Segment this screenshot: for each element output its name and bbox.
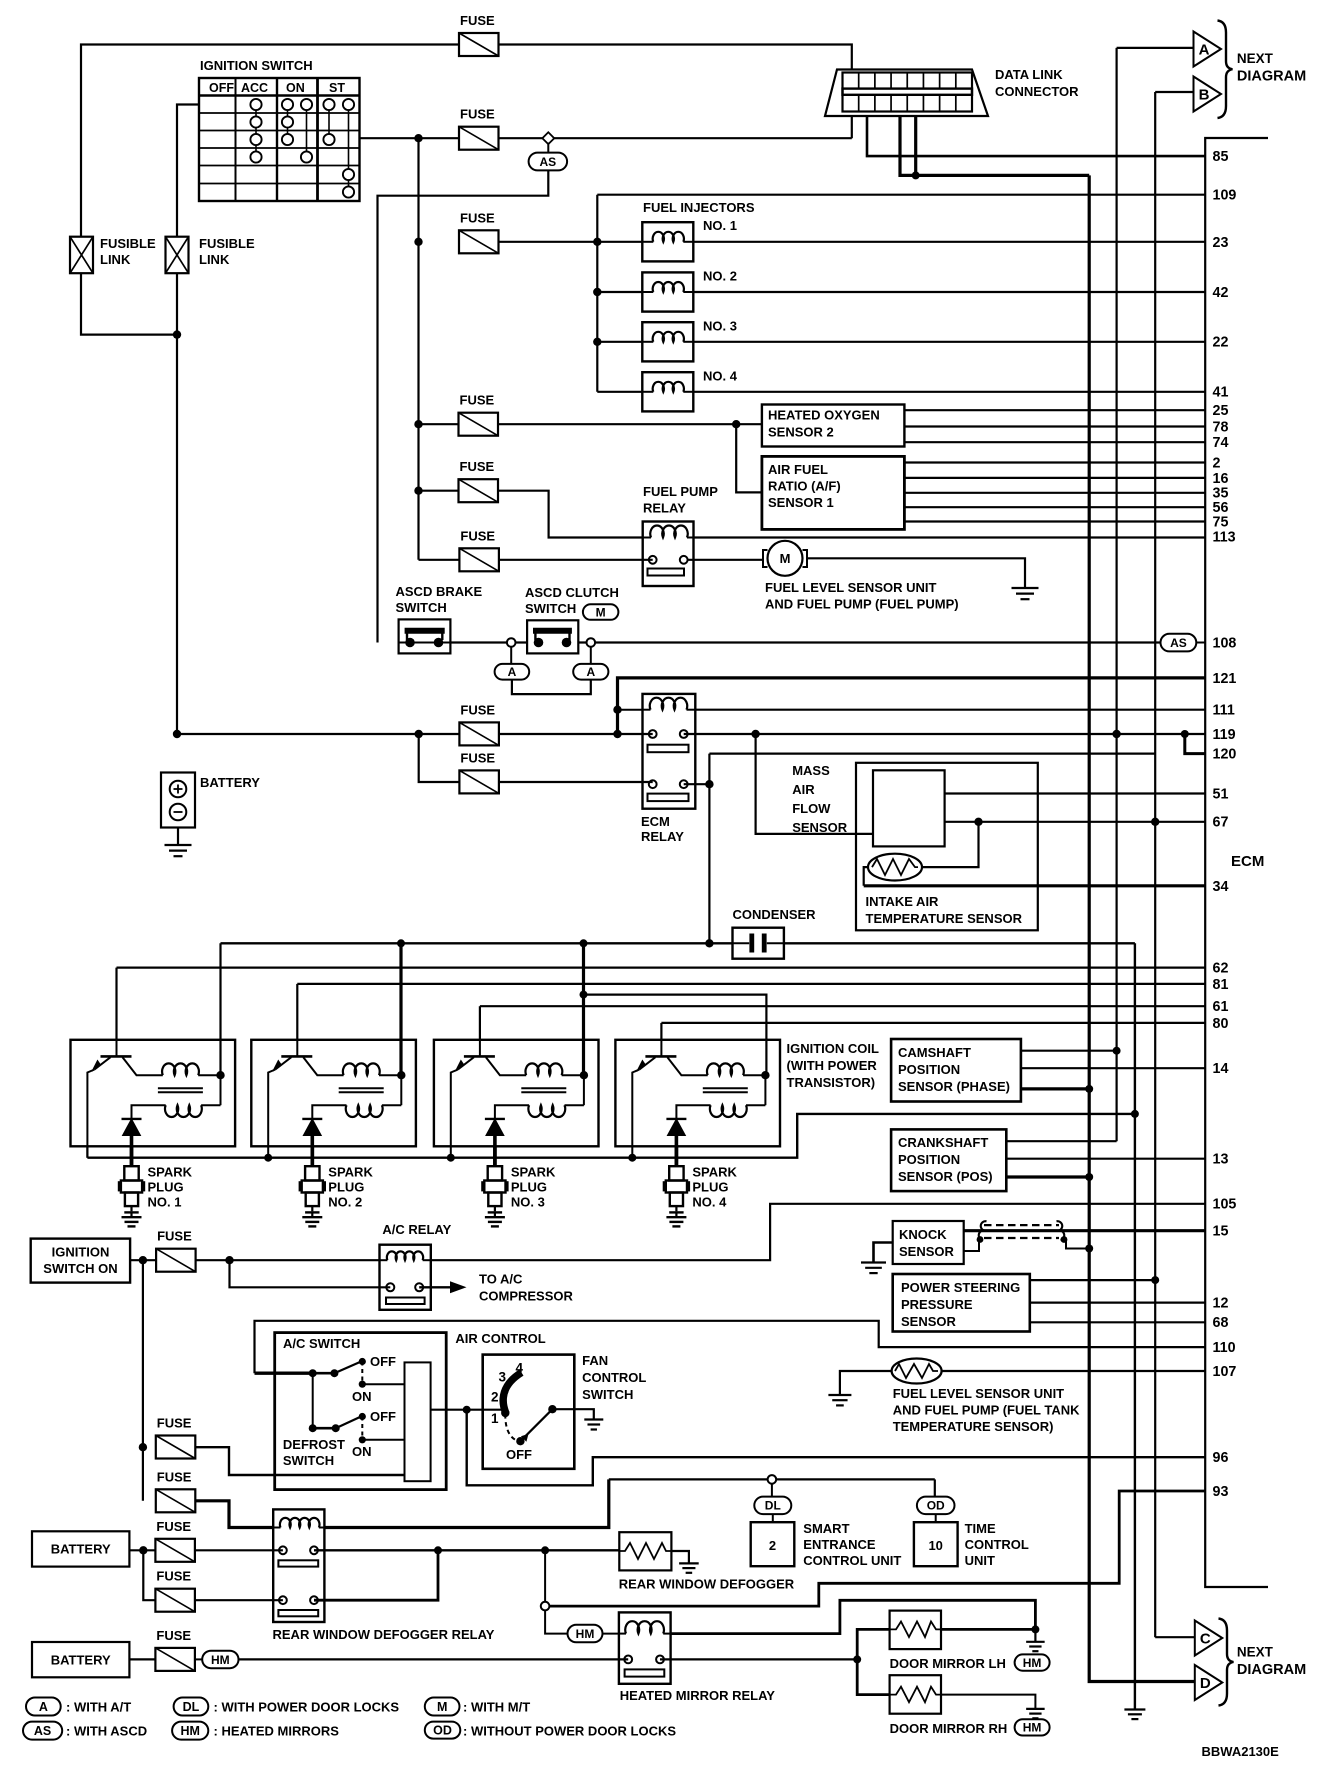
A/C switch box	[275, 1333, 447, 1490]
next diagram triangle C	[1195, 1621, 1223, 1656]
svg-text:HEATED OXYGEN: HEATED OXYGEN	[768, 408, 880, 423]
air control connector bar	[405, 1362, 431, 1481]
svg-text:BATTERY: BATTERY	[51, 1542, 111, 1557]
label: NO. 4	[703, 369, 738, 384]
svg-text:FUSIBLE: FUSIBLE	[199, 236, 255, 251]
svg-text:SENSOR 1: SENSOR 1	[768, 495, 834, 510]
ground (door mirror RH)	[1026, 1709, 1045, 1718]
svg-text:FLOW: FLOW	[792, 801, 831, 816]
svg-text:16: 16	[1213, 471, 1229, 487]
wire: battery stem and ground	[177, 828, 179, 846]
A oval right (with A/T)	[573, 647, 608, 680]
wire: injector2 to ECM pin 42	[693, 291, 1205, 293]
label: DOOR MIRROR LH + HM oval	[890, 1654, 1050, 1671]
wire: tank sensor to ECM pin 107	[942, 1370, 1205, 1372]
svg-text:HEATED MIRROR RELAY: HEATED MIRROR RELAY	[620, 1688, 776, 1703]
svg-text:B: B	[1199, 87, 1210, 104]
wire: battery branch to fuse F13	[143, 1550, 155, 1600]
wire: defogger contact2 loop to contact1 wire	[314, 1550, 438, 1600]
wire: PSPS to bus B	[1030, 1276, 1159, 1284]
wire: branch to A/C relay contact	[230, 1260, 391, 1287]
M oval (with M/T)	[583, 604, 619, 620]
ECM boundary	[1205, 138, 1268, 1587]
wire: defogger contact1 output to rear window defogger	[314, 1546, 619, 1554]
ignition switch table	[199, 78, 360, 201]
svg-text:DOOR MIRROR RH: DOOR MIRROR RH	[890, 1721, 1008, 1736]
svg-text:CONDENSER: CONDENSER	[733, 907, 817, 922]
svg-text:NEXT: NEXT	[1237, 51, 1274, 66]
label: FUEL INJECTORS / NO. 1	[643, 200, 755, 233]
wire: door mirror RH to ground	[941, 1695, 1035, 1709]
svg-text:FUSE: FUSE	[157, 1416, 192, 1431]
ground (fuel tank sensor)	[828, 1395, 851, 1405]
svg-text:LINK: LINK	[100, 252, 131, 267]
svg-text:BBWA2130E: BBWA2130E	[1202, 1744, 1280, 1759]
svg-text:IGNITION SWITCH: IGNITION SWITCH	[200, 58, 313, 73]
svg-text:23: 23	[1213, 235, 1229, 251]
svg-text:LINK: LINK	[199, 252, 230, 267]
wire: shield drain to bus C	[964, 1236, 1093, 1252]
ground (main bus)	[1124, 1710, 1145, 1720]
svg-text:OFF: OFF	[370, 1354, 396, 1369]
heated mirror relay	[603, 1612, 671, 1683]
svg-text:FUSE: FUSE	[157, 1469, 192, 1484]
door mirror LH element	[890, 1611, 941, 1650]
wire: ECM relay contact2 output and riser x709.4	[684, 754, 1155, 948]
label: AIR CONTROL	[455, 1331, 545, 1346]
label: ECM	[1231, 853, 1264, 870]
wire: 93 net connector circle to ECM pin 93	[541, 1491, 1205, 1610]
label: REAR WINDOW DEFOGGER RELAY	[273, 1627, 495, 1642]
ECM pin number labels	[1213, 149, 1237, 1500]
wire: HO2S2 to ECM pin 78	[904, 425, 1205, 427]
wire: fuse F3 to injector bus and pin 109 riser	[499, 195, 1206, 392]
crankshaft position sensor (POS) box	[891, 1129, 1006, 1191]
HM oval (heated mirror relay coil)	[568, 1625, 603, 1643]
rear window defogger relay	[273, 1509, 324, 1622]
heated oxygen sensor 2 box	[762, 405, 905, 447]
svg-text:NO. 1: NO. 1	[148, 1195, 182, 1210]
svg-text:FUSE: FUSE	[460, 702, 495, 717]
next diagram triangle D	[1195, 1665, 1223, 1700]
battery box (heated mirror)	[32, 1642, 129, 1677]
svg-text:SENSOR: SENSOR	[901, 1314, 957, 1329]
svg-text:A: A	[39, 1700, 48, 1714]
svg-text:41: 41	[1213, 385, 1229, 401]
fuse F1 (top)	[459, 13, 499, 56]
svg-text:SWITCH: SWITCH	[396, 600, 447, 615]
wire: injector1 to ECM pin 23	[693, 241, 1205, 243]
svg-text:: WITH POWER DOOR LOCKS: : WITH POWER DOOR LOCKS	[214, 1700, 400, 1715]
svg-text:CONNECTOR: CONNECTOR	[995, 84, 1079, 99]
svg-text:PLUG: PLUG	[148, 1180, 184, 1195]
label: NO. 2	[703, 269, 737, 284]
ground (battery)	[165, 845, 192, 856]
wire: A/C relay coil to ECM pin 105	[431, 1204, 1205, 1260]
label: DEFROST SWITCH	[283, 1437, 345, 1468]
svg-text:AND FUEL PUMP (FUEL TANK: AND FUEL PUMP (FUEL TANK	[893, 1403, 1080, 1418]
svg-text:FUSE: FUSE	[460, 13, 495, 28]
svg-text:CAMSHAFT: CAMSHAFT	[898, 1045, 971, 1060]
wire: crankshaft sensor to bus A end	[1006, 1140, 1116, 1142]
svg-text:FUEL PUMP: FUEL PUMP	[643, 484, 718, 499]
svg-text:ASCD BRAKE: ASCD BRAKE	[396, 584, 483, 599]
svg-text:FUSE: FUSE	[156, 1569, 191, 1584]
svg-text:DL: DL	[765, 1499, 781, 1513]
wire: MAF to ECM pin 67	[945, 818, 1205, 826]
svg-text:FAN: FAN	[582, 1353, 608, 1368]
svg-text:TEMPERATURE SENSOR: TEMPERATURE SENSOR	[866, 911, 1023, 926]
svg-text:POSITION: POSITION	[898, 1062, 960, 1077]
wire: AS oval down-left to ASCD brake switch feed	[378, 170, 549, 642]
svg-text:UNIT: UNIT	[965, 1553, 995, 1568]
wire: coil supply drop to coil 1	[219, 943, 221, 1075]
fuse F10 (air control)	[156, 1416, 196, 1459]
fuel pump relay	[643, 522, 694, 587]
svg-text:FUSE: FUSE	[156, 1519, 191, 1534]
svg-text:REAR WINDOW DEFOGGER RELAY: REAR WINDOW DEFOGGER RELAY	[273, 1627, 495, 1642]
svg-text:AND FUEL PUMP (FUEL PUMP): AND FUEL PUMP (FUEL PUMP)	[765, 597, 959, 612]
svg-text:SMART: SMART	[803, 1521, 849, 1536]
legend: A with A/T	[26, 1698, 131, 1716]
svg-text:121: 121	[1213, 671, 1237, 687]
svg-text:M: M	[437, 1700, 447, 1714]
svg-text:111: 111	[1213, 703, 1235, 719]
svg-text:: HEATED MIRRORS: : HEATED MIRRORS	[214, 1724, 340, 1739]
wire: next diagram B feed	[1155, 91, 1193, 93]
wire: fuse F9 to A/C relay coil	[196, 1256, 380, 1264]
ground (door mirror LH)	[1026, 1642, 1045, 1651]
svg-text:AS: AS	[1170, 636, 1187, 650]
label: OFF / ON (A/C switch)	[352, 1354, 396, 1404]
wire: condenser to ground bus corner	[784, 942, 1135, 944]
air fuel ratio sensor 1 box	[762, 456, 905, 529]
svg-text:FUSE: FUSE	[460, 750, 495, 765]
wire: A/F sensor to ECM pin 56	[904, 506, 1205, 508]
svg-text:D: D	[1200, 1675, 1211, 1692]
svg-text:PLUG: PLUG	[692, 1180, 728, 1195]
spark plug NO. 4	[664, 1146, 737, 1226]
svg-text:SWITCH: SWITCH	[582, 1387, 633, 1402]
fuse F14 (heated mirror)	[155, 1628, 195, 1671]
svg-text:M: M	[596, 605, 606, 619]
wire: connector to fan control switch	[431, 1406, 506, 1414]
wire: injector3 to ECM pin 22	[693, 341, 1205, 343]
svg-text:SENSOR (POS): SENSOR (POS)	[898, 1169, 993, 1184]
ignition coil unit 1 (with power transistor Q1)	[71, 1040, 236, 1165]
wire: battery to fuse F12	[129, 1546, 155, 1554]
svg-text:NO. 3: NO. 3	[511, 1195, 545, 1210]
svg-text:ECM: ECM	[1231, 853, 1264, 870]
svg-text:ASCD CLUTCH: ASCD CLUTCH	[525, 585, 619, 600]
wire: motor to ground	[807, 558, 1025, 588]
svg-text:SWITCH: SWITCH	[525, 601, 576, 616]
condenser	[733, 928, 784, 959]
svg-text:HM: HM	[211, 1653, 230, 1667]
svg-text:SPARK: SPARK	[692, 1165, 737, 1180]
wire: ignition trigger net to ECM pin 61	[480, 1006, 1205, 1040]
brace (next diagram bottom)	[1219, 1619, 1234, 1706]
svg-text:OFF: OFF	[209, 81, 234, 95]
wire: A/F sensor to ECM pin 2	[904, 461, 1205, 463]
svg-text:TO A/C: TO A/C	[479, 1272, 523, 1287]
svg-text:DATA LINK: DATA LINK	[995, 67, 1063, 82]
wire: HO2S2 to ECM pin 74	[904, 441, 1205, 443]
legend: AS with ASCD	[23, 1722, 147, 1740]
wire: coil supply drop to coil 3	[580, 943, 588, 1075]
svg-text:1: 1	[491, 1411, 499, 1426]
svg-text:2: 2	[491, 1390, 499, 1405]
svg-text:FUSIBLE: FUSIBLE	[100, 236, 156, 251]
A/C relay	[380, 1245, 431, 1310]
svg-text:SPARK: SPARK	[148, 1165, 193, 1180]
svg-text:POWER STEERING: POWER STEERING	[901, 1280, 1020, 1295]
spark plug NO. 3	[483, 1146, 556, 1226]
svg-text:NEXT: NEXT	[1237, 1645, 1274, 1660]
svg-text:A/C SWITCH: A/C SWITCH	[283, 1336, 360, 1351]
wire: fuse F5 to fuel pump relay coil	[419, 491, 643, 538]
wire: ECM relay coil feed riser x617.5 and pin 121 wire	[613, 678, 1205, 734]
label: FUEL LEVEL SENSOR UNIT AND FUEL PUMP (FUEL TANK TEMPERATURE SENSOR)	[893, 1386, 1080, 1434]
svg-text:113: 113	[1213, 530, 1236, 546]
wire: MAF to ECM pin 51	[945, 792, 1205, 794]
svg-text:PRESSURE: PRESSURE	[901, 1297, 973, 1312]
fuel pump motor M	[763, 541, 807, 576]
svg-text:62: 62	[1213, 961, 1229, 977]
wire: ground bus x1134.9	[1134, 943, 1136, 1709]
svg-text:108: 108	[1213, 635, 1237, 651]
fuel injector NO.4	[597, 372, 693, 411]
svg-text:TIME: TIME	[965, 1521, 996, 1536]
wire: fuse F2 output to DLC corner	[499, 137, 852, 139]
svg-text:61: 61	[1213, 999, 1229, 1015]
power steering pressure sensor box	[893, 1274, 1030, 1332]
svg-text:74: 74	[1213, 435, 1229, 451]
wire: ECM relay contact1 to ECM pin 119	[684, 730, 1205, 738]
label: MASS AIR FLOW SENSOR	[792, 763, 848, 835]
svg-text:FUSE: FUSE	[460, 528, 495, 543]
svg-text:: WITHOUT POWER DOOR LOCKS: : WITHOUT POWER DOOR LOCKS	[463, 1724, 676, 1739]
svg-text:AS: AS	[540, 155, 557, 169]
wire: crankshaft sensor to ECM pin 13	[1006, 1158, 1205, 1160]
label: CONDENSER	[733, 907, 817, 922]
wire: ignition switch ACC/ON row to fuse F2	[360, 134, 460, 142]
knock sensor shielded cable	[979, 1221, 1065, 1240]
wire: splitter to door mirror RH	[857, 1659, 889, 1694]
svg-text:OD: OD	[927, 1499, 945, 1513]
svg-text:FUEL INJECTORS: FUEL INJECTORS	[643, 200, 755, 215]
label: TO A/C COMPRESSOR	[479, 1272, 574, 1304]
wire: bus to fuse F6 and fuse F6 to relay contact	[419, 559, 653, 561]
wire: fuse F7 to ECM relay contact 1	[499, 733, 653, 735]
label: IGNITION SWITCH	[200, 58, 313, 73]
camshaft position sensor (PHASE) box	[891, 1039, 1021, 1102]
svg-text:TRANSISTOR): TRANSISTOR)	[787, 1075, 876, 1090]
wire: relay contact output to mirror splitter	[660, 1655, 861, 1663]
svg-text:25: 25	[1213, 403, 1229, 419]
svg-text:C: C	[1200, 1631, 1211, 1648]
label: BATTERY	[200, 775, 260, 790]
svg-text:81: 81	[1213, 977, 1229, 993]
svg-text:67: 67	[1213, 815, 1229, 831]
battery (main)	[161, 773, 195, 828]
svg-text:CONTROL UNIT: CONTROL UNIT	[803, 1553, 901, 1568]
wire: ignition switch on to fuse	[130, 1256, 156, 1264]
wire: A/C switch common to ECM pin 110	[255, 1321, 1206, 1373]
legend: M with M/T	[425, 1698, 530, 1716]
wire: knock sensor case to ground	[874, 1243, 893, 1263]
ASCD brake switch	[399, 619, 451, 653]
wire: fuse F13 to defogger relay contact2	[195, 1599, 283, 1601]
next diagram triangle A	[1194, 32, 1222, 67]
wire: fuel pump relay coil to ECM pin 113	[694, 536, 1206, 538]
ECM relay	[643, 694, 696, 809]
wire: coil supply drop to coil 2	[399, 943, 402, 1075]
fan switch resistor crescent	[503, 1373, 521, 1414]
svg-text:NO. 1: NO. 1	[703, 218, 737, 233]
fan control switch box	[483, 1355, 575, 1469]
svg-text:FUSE: FUSE	[460, 210, 495, 225]
wire: DLC pin to ECM pin 85	[867, 116, 1205, 156]
svg-text:110: 110	[1213, 1340, 1236, 1356]
svg-text:ST: ST	[329, 81, 345, 95]
svg-text:OD: OD	[433, 1723, 452, 1737]
A/C switch contacts	[309, 1358, 405, 1388]
svg-text:MASS: MASS	[792, 763, 830, 778]
svg-text:M: M	[780, 551, 791, 566]
svg-text:A: A	[1199, 42, 1210, 59]
label: IGNITION COIL (WITH POWER TRANSISTOR)	[787, 1041, 880, 1090]
svg-text:DOOR MIRROR LH: DOOR MIRROR LH	[890, 1656, 1006, 1671]
svg-text:85: 85	[1213, 149, 1229, 165]
svg-text:: WITH ASCD: : WITH ASCD	[66, 1724, 147, 1739]
svg-text:DL: DL	[183, 1700, 200, 1714]
label: A/C RELAY	[382, 1222, 451, 1237]
svg-text:FUSE: FUSE	[157, 1229, 192, 1244]
MAF sensor inner box	[873, 770, 945, 846]
ground (knock sensor)	[861, 1263, 886, 1274]
svg-text:22: 22	[1213, 335, 1229, 351]
label: FUEL LEVEL SENSOR UNIT AND FUEL PUMP (FUEL PUMP)	[765, 580, 959, 612]
wire: ignition switch row1 to fusible link 2	[177, 105, 199, 237]
svg-text:93: 93	[1213, 1484, 1229, 1500]
vertical fuse bus x418.5	[414, 138, 422, 560]
connector diamond on ASCD tap	[542, 132, 554, 144]
knock sensor box	[893, 1221, 964, 1264]
label: ASCD CLUTCH SWITCH	[525, 585, 619, 616]
svg-text:FUEL LEVEL SENSOR UNIT: FUEL LEVEL SENSOR UNIT	[893, 1386, 1064, 1401]
svg-text:15: 15	[1213, 1224, 1229, 1240]
svg-text:HM: HM	[1023, 1721, 1042, 1735]
fan switch rotor contact and arm	[501, 1405, 557, 1445]
wire: fuse F12 to defogger relay contact1	[195, 1549, 283, 1551]
A oval left (with A/T)	[495, 647, 530, 680]
wire: fusible links junction to battery bus	[81, 273, 181, 738]
wire: fuse F10 to air control connector	[195, 1447, 404, 1475]
wire: fuse F8 to ECM relay contact 2	[499, 781, 653, 783]
svg-text:RELAY: RELAY	[641, 829, 684, 844]
wire: splitter to door mirror LH	[857, 1629, 889, 1659]
label: BBWA2130E	[1202, 1744, 1280, 1759]
intake air temperature sensor resistor	[868, 854, 922, 881]
svg-text:13: 13	[1213, 1152, 1229, 1168]
ignition switch on box	[31, 1239, 130, 1283]
brace (next diagram top)	[1218, 21, 1233, 119]
svg-text:(WITH POWER: (WITH POWER	[787, 1058, 878, 1073]
svg-text:SENSOR: SENSOR	[792, 820, 848, 835]
wire: defogger element to ground	[671, 1551, 689, 1563]
wire: ignition coil emitter/ground bus	[87, 1110, 1139, 1162]
wire: brake switch to clutch switch with connector circles	[450, 638, 527, 647]
svg-text:42: 42	[1213, 285, 1229, 301]
svg-text:12: 12	[1213, 1296, 1229, 1312]
svg-text:75: 75	[1213, 514, 1229, 530]
AS connector oval (top)	[529, 143, 568, 171]
svg-text:BATTERY: BATTERY	[51, 1652, 111, 1667]
svg-text:AIR: AIR	[792, 782, 815, 797]
ground (fuel pump)	[1012, 588, 1039, 599]
fuel tank temperature sensor resistor	[892, 1359, 942, 1384]
svg-text:HM: HM	[180, 1724, 199, 1738]
svg-text:SENSOR (PHASE): SENSOR (PHASE)	[898, 1079, 1010, 1094]
fuse F7	[459, 702, 499, 745]
label: NEXT DIAGRAM (top)	[1237, 51, 1306, 85]
wire: A/F sensor to ECM pin 75	[904, 520, 1205, 522]
svg-text:: WITH M/T: : WITH M/T	[463, 1700, 530, 1715]
fuse F9 (A/C relay)	[156, 1229, 196, 1272]
wire: heated mirror relay coil feed from connector circle	[545, 1610, 567, 1634]
wire: U link between A ovals	[512, 680, 591, 695]
spark plug NO. 2	[300, 1146, 373, 1226]
ignition coil unit 2 (with power transistor Q2)	[251, 1040, 416, 1165]
label: ASCD BRAKE SWITCH	[396, 584, 483, 615]
wire: O2 feed branch down to A/F sensor 1	[736, 424, 762, 492]
defrost switch contacts	[309, 1373, 405, 1443]
label: NEXT DIAGRAM (bottom)	[1237, 1645, 1306, 1679]
wire: HO2S2 to ECM pin 25	[904, 409, 1205, 411]
fuse F12 (defogger contact)	[155, 1519, 195, 1562]
label: OFF / ON (defrost switch)	[352, 1409, 396, 1459]
label: INTAKE AIR TEMPERATURE SENSOR	[866, 894, 1023, 926]
svg-text:2: 2	[1213, 455, 1221, 471]
wire: DLC pins to bus C (thick)	[900, 116, 1089, 179]
fuse F8	[459, 750, 499, 793]
svg-text:OFF: OFF	[370, 1409, 396, 1424]
wire: camshaft sensor to bus C (thick)	[1021, 1085, 1093, 1093]
wire: PSPS to ECM pin 68	[1030, 1321, 1205, 1323]
wire: door mirror LH to ground	[941, 1625, 1039, 1641]
svg-text:109: 109	[1213, 188, 1237, 204]
rear window defogger element	[619, 1532, 671, 1570]
label: A/C SWITCH	[283, 1336, 360, 1351]
ASCD clutch switch	[527, 620, 578, 653]
svg-text:FUSE: FUSE	[460, 107, 495, 122]
svg-text:DIAGRAM: DIAGRAM	[1237, 1662, 1306, 1678]
fuse F6	[459, 528, 499, 571]
svg-text:34: 34	[1213, 879, 1229, 895]
wire: HM oval to heated mirror relay contact	[239, 1658, 629, 1660]
wire: injector4 to ECM pin 41	[693, 391, 1205, 393]
svg-text:ECM: ECM	[641, 814, 670, 829]
fan switch positions 1 2 3 4	[491, 1361, 524, 1427]
fuse F5	[459, 459, 499, 502]
svg-text:CONTROL: CONTROL	[965, 1537, 1029, 1552]
wire: battery bus to fuse F7	[178, 730, 622, 738]
wire: bus B to next diagram C	[1155, 1636, 1195, 1638]
label: REAR WINDOW DEFOGGER	[619, 1577, 795, 1592]
svg-text:BATTERY: BATTERY	[200, 775, 260, 790]
wire: fuse F1 to data link connector corner	[499, 45, 852, 139]
